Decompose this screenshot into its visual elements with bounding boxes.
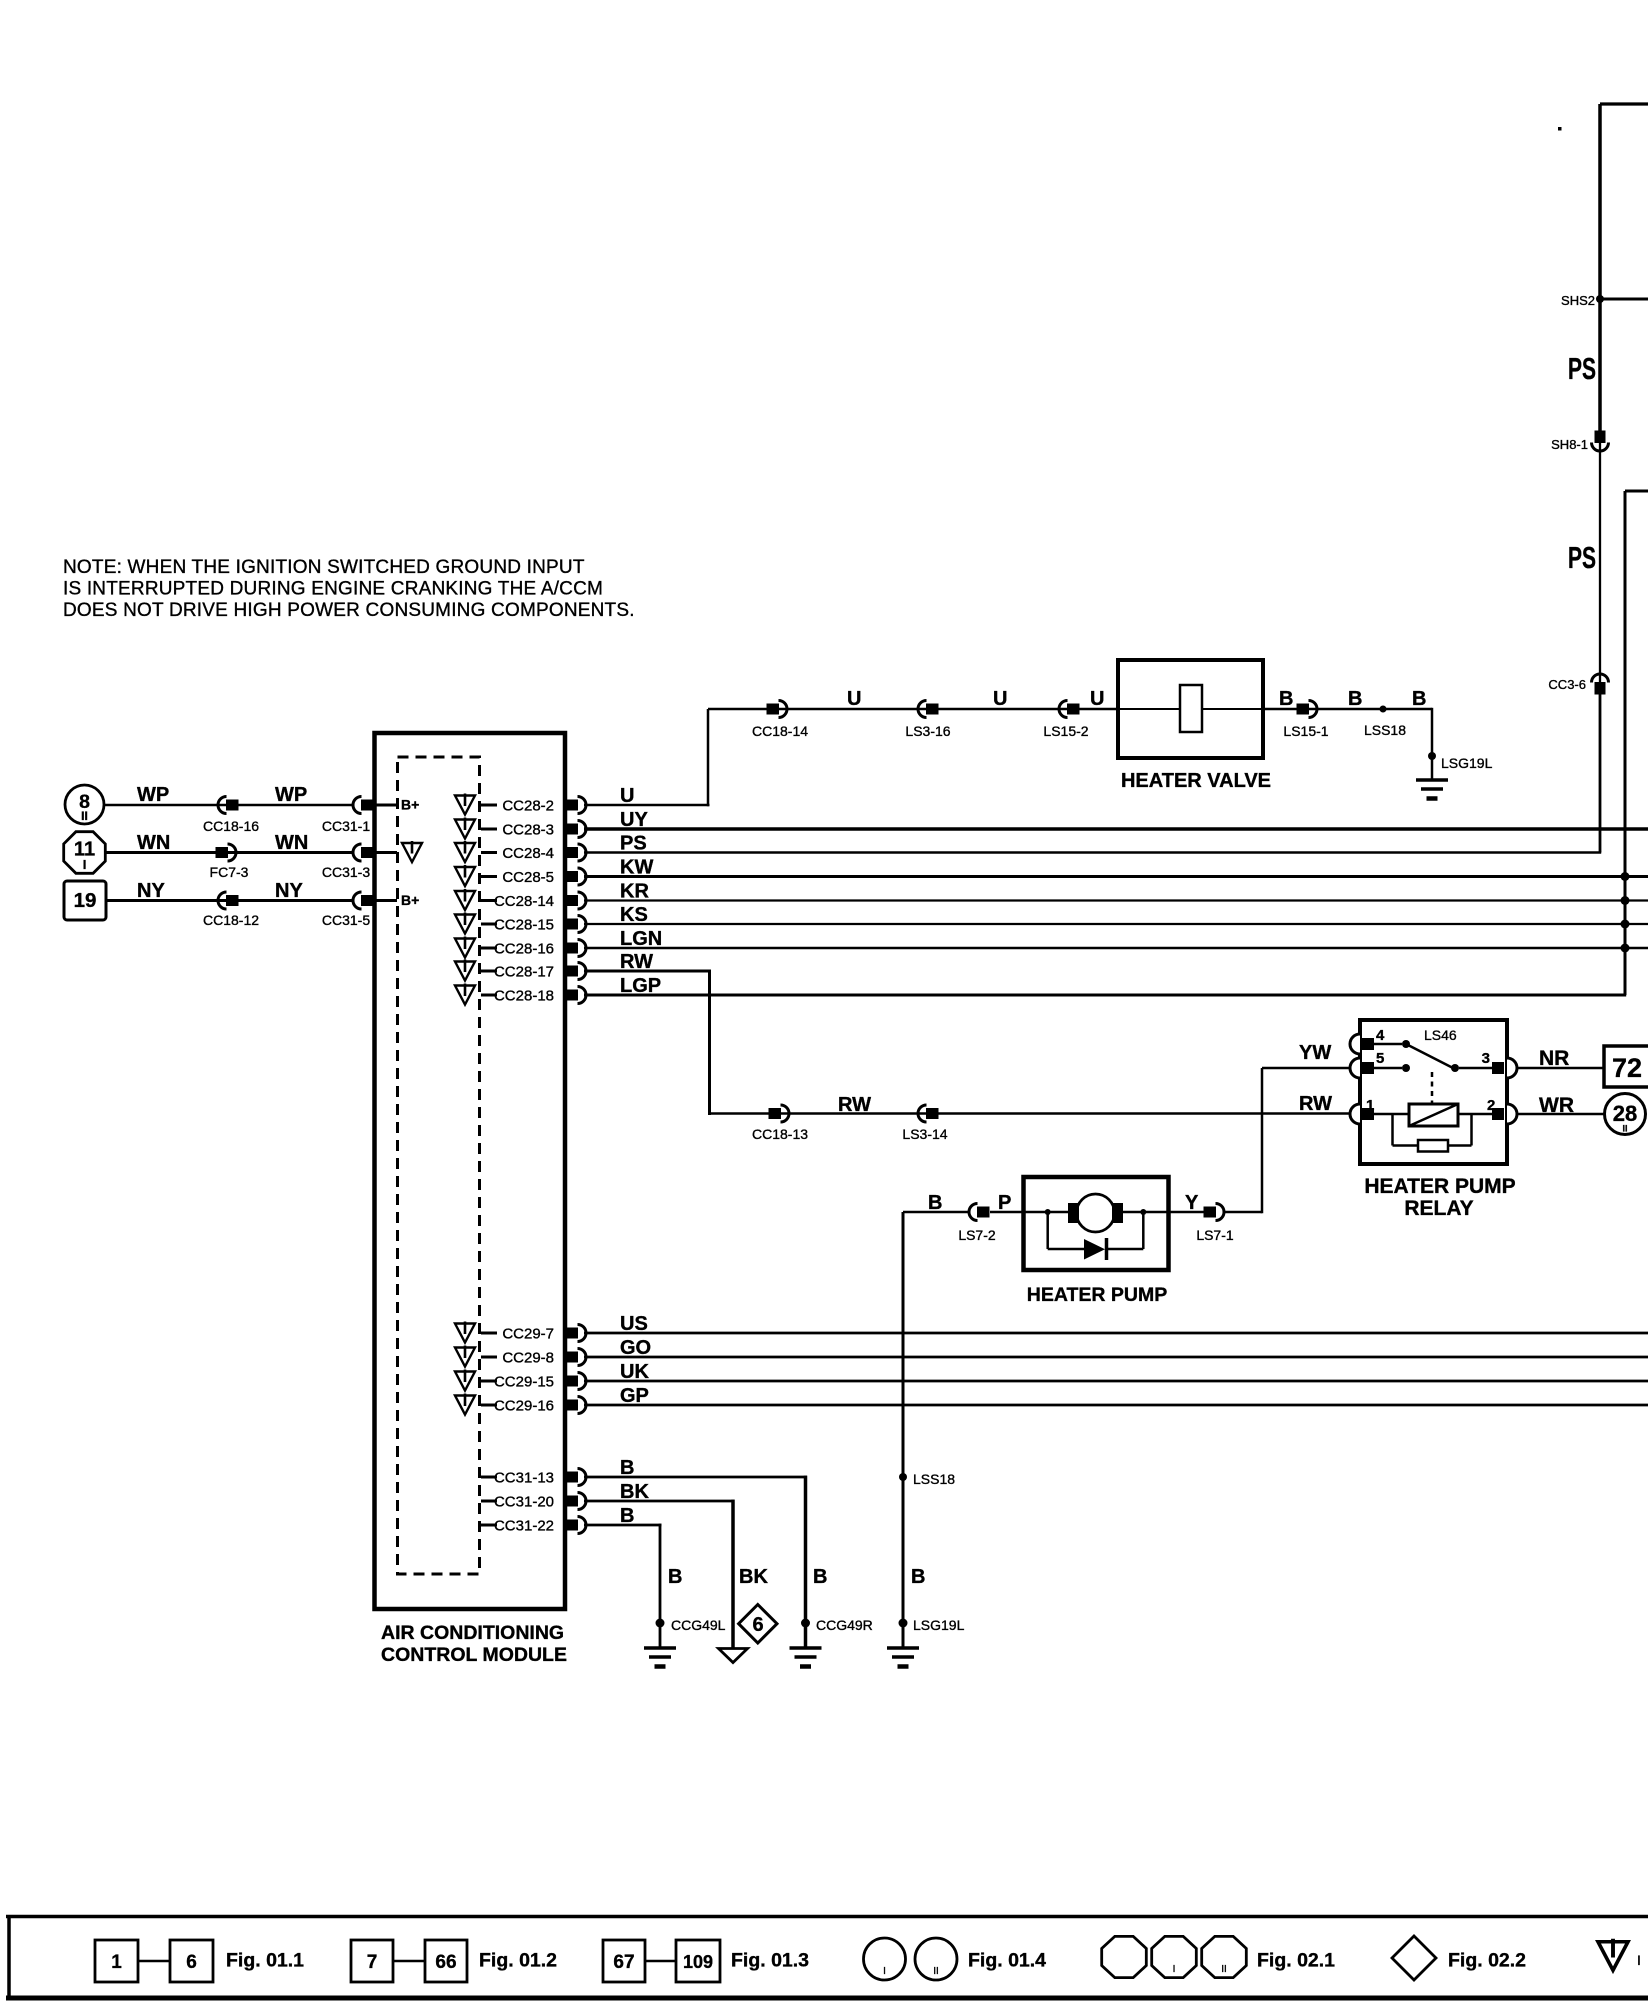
relay pin 4 xyxy=(1362,1027,1385,1050)
wire B from CC31-13 to CCG49R xyxy=(584,1476,807,1623)
svg-text:YW: YW xyxy=(1299,1042,1331,1064)
off-page arrow (BK) xyxy=(719,1649,748,1663)
wire label B (49R riser) xyxy=(813,1566,827,1588)
node label: AIR CONDITIONING CONTROL MODULE xyxy=(381,1622,567,1666)
svg-text:CC31-13: CC31-13 xyxy=(494,1470,554,1487)
wire BK from CC31-20 xyxy=(584,1500,735,1648)
svg-text:7: 7 xyxy=(367,1952,378,1973)
legend item Fig. 02.1 xyxy=(1102,1936,1335,1977)
svg-text:Fig. 02.1: Fig. 02.1 xyxy=(1257,1950,1335,1972)
svg-text:LS3-14: LS3-14 xyxy=(902,1126,947,1142)
wire B from CC31-22 to CCG49L xyxy=(584,1524,662,1623)
wire label US at pin CC29-7 xyxy=(620,1313,648,1335)
connector LS15-2 xyxy=(1043,701,1088,740)
svg-text:PS: PS xyxy=(1568,351,1596,386)
svg-text:LSG19L: LSG19L xyxy=(1441,755,1493,771)
pin CC28-15 xyxy=(455,913,586,934)
relay pin 2 xyxy=(1487,1097,1504,1120)
pin CC28-5 xyxy=(455,865,586,886)
splice LSG19L xyxy=(1428,752,1493,771)
svg-text:LS15-1: LS15-1 xyxy=(1283,723,1328,739)
legend frame xyxy=(6,1917,1648,1999)
svg-text:HEATER VALVE: HEATER VALVE xyxy=(1121,770,1271,792)
svg-text:LS46: LS46 xyxy=(1424,1027,1457,1043)
pin CC31-3 (ignition switched ground) xyxy=(353,841,422,862)
svg-text:I: I xyxy=(83,857,87,872)
node 8-II input connector xyxy=(65,785,104,824)
junction KR riser xyxy=(1621,896,1630,905)
wire KW to page edge xyxy=(584,875,1648,878)
wire label WP (2) xyxy=(275,784,307,806)
wire U from CC28-2 up to heater valve line xyxy=(584,709,710,806)
wire label B at pin CC31-13 xyxy=(620,1457,634,1479)
ground LSG19L xyxy=(887,1623,919,1667)
wire label B (2) xyxy=(1348,688,1362,710)
svg-text:PS: PS xyxy=(620,833,647,855)
splice SHS2 xyxy=(1561,293,1648,308)
pin CC28-4 xyxy=(455,841,586,862)
svg-text:WN: WN xyxy=(275,832,308,854)
svg-text:CC28-15: CC28-15 xyxy=(494,917,554,934)
wire label UK at pin CC29-15 xyxy=(620,1361,649,1383)
wire label PS at pin CC28-4 xyxy=(620,833,647,855)
svg-text:CC3-6: CC3-6 xyxy=(1548,677,1586,692)
svg-text:CC18-16: CC18-16 xyxy=(203,818,259,834)
svg-text:LSS18: LSS18 xyxy=(913,1471,955,1487)
splice CCG49L xyxy=(656,1617,726,1633)
connector LS3-14 xyxy=(902,1105,947,1142)
svg-text:CC31-22: CC31-22 xyxy=(494,1518,554,1535)
svg-text:LS7-1: LS7-1 xyxy=(1196,1227,1234,1243)
svg-text:B: B xyxy=(1348,688,1362,710)
svg-text:LS15-2: LS15-2 xyxy=(1043,723,1088,739)
relay pin 5 xyxy=(1362,1050,1384,1074)
svg-text:CC31-3: CC31-3 xyxy=(322,864,370,880)
wire WR from relay pin 2 xyxy=(1517,1113,1604,1116)
svg-text:B: B xyxy=(911,1566,925,1588)
wire label NR xyxy=(1539,1047,1569,1070)
wire label WN xyxy=(137,832,170,854)
svg-text:LGN: LGN xyxy=(620,928,662,950)
wire KR to page edge xyxy=(584,899,1648,901)
pin CC29-15 xyxy=(455,1370,586,1391)
svg-text:B+: B+ xyxy=(401,797,419,813)
wire label NY (2) xyxy=(275,880,303,902)
wire label KR at pin CC28-14 xyxy=(620,881,649,903)
svg-text:109: 109 xyxy=(683,1952,713,1972)
svg-text:I: I xyxy=(883,1966,886,1977)
diode in heater pump xyxy=(1045,1209,1147,1260)
wire NR from relay pin 3 xyxy=(1517,1067,1604,1070)
pin CC28-16 xyxy=(455,937,586,958)
legend item Fig. 01.1 xyxy=(95,1940,304,1982)
wire label B at pin CC31-22 xyxy=(620,1505,634,1527)
svg-text:CC28-4: CC28-4 xyxy=(502,845,554,862)
svg-text:19: 19 xyxy=(74,889,97,912)
wire label U xyxy=(847,688,861,710)
svg-text:Fig. 01.4: Fig. 01.4 xyxy=(968,1950,1046,1972)
wire LGN to page edge xyxy=(584,947,1648,950)
pin CC29-7 xyxy=(455,1322,586,1343)
svg-text:II: II xyxy=(1622,1124,1627,1134)
wire label YW xyxy=(1299,1042,1331,1064)
svg-text:Y: Y xyxy=(1185,1192,1199,1214)
wire PS riser to top of page xyxy=(1600,104,1648,853)
connector LS7-1 xyxy=(1196,1204,1234,1244)
pin CC31-22 xyxy=(481,1517,586,1535)
legend item Fig. 01.2 xyxy=(351,1940,557,1982)
svg-text:HEATER PUMP: HEATER PUMP xyxy=(1364,1175,1515,1198)
connector CC18-16 xyxy=(203,797,259,835)
pin CC29-8 xyxy=(455,1346,586,1367)
wire UY to page edge xyxy=(584,827,1648,831)
wire label KW at pin CC28-5 xyxy=(620,857,653,879)
svg-text:SHS2: SHS2 xyxy=(1561,293,1595,308)
svg-text:RW: RW xyxy=(838,1094,871,1116)
wire label B (49L riser) xyxy=(668,1566,682,1588)
heater valve HV1 xyxy=(1118,660,1432,758)
connector LS7-2 xyxy=(958,1204,996,1244)
wire WP from node 8 to module xyxy=(104,804,353,807)
svg-text:CC29-8: CC29-8 xyxy=(502,1350,554,1367)
wire NY from node 19 to module xyxy=(106,899,353,902)
svg-text:NY: NY xyxy=(275,880,303,902)
svg-text:KS: KS xyxy=(620,904,648,926)
junction KW riser xyxy=(1621,872,1630,881)
svg-text:CC28-3: CC28-3 xyxy=(502,822,554,839)
wire YW from relay pin 5 xyxy=(1262,1068,1350,1213)
connector SH8-1 xyxy=(1551,431,1608,453)
wire label B (riser) xyxy=(911,1566,925,1588)
svg-text:CC28-2: CC28-2 xyxy=(502,798,554,815)
svg-text:Fig. 01.1: Fig. 01.1 xyxy=(226,1950,304,1972)
component A/CCM: air conditioning control module box xyxy=(375,733,566,1609)
svg-text:U: U xyxy=(1090,688,1104,710)
pin CC28-18 xyxy=(455,984,586,1005)
svg-text:B: B xyxy=(668,1566,682,1588)
connector label CC31-5 xyxy=(322,912,370,928)
svg-text:CCG49L: CCG49L xyxy=(671,1617,726,1633)
svg-text:CONTROL MODULE: CONTROL MODULE xyxy=(381,1644,567,1666)
pin CC28-14 xyxy=(455,889,586,910)
svg-text:SH8-1: SH8-1 xyxy=(1551,437,1588,452)
svg-text:LS3-16: LS3-16 xyxy=(905,723,950,739)
svg-text:LS7-2: LS7-2 xyxy=(958,1227,996,1243)
wire P into pump xyxy=(990,1211,1071,1214)
svg-text:CC28-16: CC28-16 xyxy=(494,941,554,958)
pin CC31-5 (B+) xyxy=(353,892,419,909)
component label HEATER PUMP RELAY xyxy=(1364,1175,1515,1220)
wire label RW at pin CC28-17 xyxy=(620,951,653,973)
svg-text:II: II xyxy=(81,809,88,823)
svg-text:LSS18: LSS18 xyxy=(1364,722,1406,738)
connector CC18-14 xyxy=(752,701,808,740)
svg-text:I: I xyxy=(1173,1964,1176,1975)
svg-text:B: B xyxy=(813,1566,827,1588)
legend item Fig. 01.4 xyxy=(864,1938,1047,1980)
svg-text:3: 3 xyxy=(1482,1050,1490,1067)
svg-text:FC7-3: FC7-3 xyxy=(210,864,249,880)
svg-text:DOES NOT DRIVE HIGH POWER CONS: DOES NOT DRIVE HIGH POWER CONSUMING COMP… xyxy=(63,600,635,621)
svg-text:P: P xyxy=(998,1192,1011,1214)
wire label RW xyxy=(838,1094,871,1116)
relay pin 1 xyxy=(1362,1097,1374,1120)
svg-text:B: B xyxy=(928,1192,942,1214)
wire label UY at pin CC28-3 xyxy=(620,809,648,831)
relay coil xyxy=(1374,1104,1492,1126)
relay: heater pump relay box xyxy=(1350,1020,1517,1164)
svg-text:NOTE: WHEN THE IGNITION SWITCH: NOTE: WHEN THE IGNITION SWITCHED GROUND … xyxy=(63,557,585,578)
svg-text:NY: NY xyxy=(137,880,165,902)
wire LGP to right riser xyxy=(584,994,1626,997)
wire label PS (riser lower) xyxy=(1568,540,1596,575)
svg-text:2: 2 xyxy=(1487,1097,1495,1114)
connector CC18-12 xyxy=(203,892,259,928)
svg-text:CC18-12: CC18-12 xyxy=(203,912,259,928)
svg-text:6: 6 xyxy=(752,1614,763,1636)
node 28-II output connector xyxy=(1605,1094,1646,1135)
component label HEATER VALVE xyxy=(1121,770,1271,792)
svg-text:CC28-18: CC28-18 xyxy=(494,988,554,1005)
node 19 input connector xyxy=(64,881,106,920)
pin CC31-13 xyxy=(481,1469,586,1487)
svg-text:PS: PS xyxy=(1568,540,1596,575)
svg-text:CC18-13: CC18-13 xyxy=(752,1126,808,1142)
legend item Fig. 01.3 xyxy=(603,1940,809,1982)
ground LSG19L (heater valve) xyxy=(1416,756,1448,799)
svg-text:CC28-5: CC28-5 xyxy=(502,869,554,886)
wire Y to YW riser xyxy=(1225,1211,1262,1214)
svg-text:Fig. 01.3: Fig. 01.3 xyxy=(731,1950,809,1972)
pin CC29-16 xyxy=(455,1394,586,1415)
svg-text:II: II xyxy=(933,1966,939,1977)
relay label LS46 xyxy=(1424,1027,1457,1043)
wire label WN (2) xyxy=(275,832,308,854)
svg-text:CC29-7: CC29-7 xyxy=(502,1326,554,1343)
svg-text:NR: NR xyxy=(1539,1047,1569,1070)
wire label Y xyxy=(1185,1192,1199,1214)
splice LSS18 on heater valve B wire xyxy=(1364,706,1406,739)
wire label NY xyxy=(137,880,165,902)
svg-text:CC28-14: CC28-14 xyxy=(494,893,554,910)
connector LS15-1 xyxy=(1283,701,1328,740)
relay actuator dashed link xyxy=(1431,1072,1434,1104)
connector label CC31-3 xyxy=(322,864,370,880)
svg-text:CC31-20: CC31-20 xyxy=(494,1494,554,1511)
svg-text:28: 28 xyxy=(1613,1101,1637,1126)
svg-text:KR: KR xyxy=(620,881,649,903)
pin CC28-2 xyxy=(455,794,586,815)
svg-text:WP: WP xyxy=(137,784,169,806)
wire label U at pin CC28-2 xyxy=(620,785,634,807)
svg-text:1: 1 xyxy=(111,1952,122,1973)
svg-text:Fig. 02.2: Fig. 02.2 xyxy=(1448,1950,1526,1972)
svg-text:4: 4 xyxy=(1376,1027,1385,1044)
svg-text:67: 67 xyxy=(613,1952,634,1973)
svg-text:WN: WN xyxy=(137,832,170,854)
wire label U (3) xyxy=(1090,688,1104,710)
note text xyxy=(63,557,635,621)
svg-text:U: U xyxy=(620,785,634,807)
wire WN from node 11 to module xyxy=(106,851,353,854)
svg-text:Fig. 01.2: Fig. 01.2 xyxy=(479,1950,557,1972)
junction KS riser xyxy=(1621,920,1630,929)
svg-text:BK: BK xyxy=(739,1566,768,1588)
node 11-I input connector xyxy=(64,832,106,874)
connector LS3-16 xyxy=(905,701,950,740)
svg-text:RELAY: RELAY xyxy=(1404,1197,1473,1220)
wire label GO at pin CC29-8 xyxy=(620,1337,651,1359)
svg-text:CCG49R: CCG49R xyxy=(816,1617,873,1633)
svg-text:LSG19L: LSG19L xyxy=(913,1617,965,1633)
svg-text:AIR CONDITIONING: AIR CONDITIONING xyxy=(381,1622,564,1644)
wire label RW (2) xyxy=(1299,1093,1332,1115)
wire label U (2) xyxy=(993,688,1007,710)
svg-text:B: B xyxy=(1279,688,1293,710)
node 72 output connector xyxy=(1604,1046,1648,1087)
svg-text:I: I xyxy=(1637,1952,1641,1968)
connector CC3-6 xyxy=(1548,674,1608,695)
ground CCG49L xyxy=(644,1623,676,1667)
svg-text:B: B xyxy=(1412,688,1426,710)
pin CC28-17 xyxy=(455,960,586,981)
svg-text:6: 6 xyxy=(186,1952,197,1973)
ground CCG49R xyxy=(790,1623,822,1667)
pin CC31-20 xyxy=(481,1493,586,1511)
svg-text:CC29-16: CC29-16 xyxy=(494,1398,554,1415)
wire label PS (riser upper) xyxy=(1568,351,1596,386)
pin CC28-3 xyxy=(455,818,586,839)
svg-text:U: U xyxy=(993,688,1007,710)
wire B down to ground LSG19L xyxy=(1431,708,1434,756)
svg-text:IS INTERRUPTED DURING ENGINE C: IS INTERRUPTED DURING ENGINE CRANKING TH… xyxy=(63,579,603,600)
splice LSG19L (riser) xyxy=(899,1617,965,1633)
connector CC18-13 xyxy=(752,1105,808,1142)
legend item Fig. 02.2 xyxy=(1392,1936,1526,1980)
svg-text:5: 5 xyxy=(1376,1050,1384,1067)
relay switch blade xyxy=(1374,1040,1492,1072)
wire label B (pump) xyxy=(928,1192,942,1214)
wire LGP riser to top page edge xyxy=(1625,491,1648,995)
relay pin 3 xyxy=(1482,1050,1504,1074)
legend item switched-ground symbol xyxy=(1598,1939,1641,1971)
wire label LGP at pin CC28-18 xyxy=(620,975,661,997)
wire B from heater pump to riser xyxy=(903,1211,968,1214)
svg-text:WR: WR xyxy=(1539,1094,1574,1117)
svg-text:II: II xyxy=(1221,1964,1227,1975)
svg-text:1: 1 xyxy=(1366,1097,1374,1114)
wire label BK (riser) xyxy=(739,1566,768,1588)
svg-text:66: 66 xyxy=(435,1952,456,1973)
node 6 diamond reference xyxy=(739,1605,777,1644)
svg-text:HEATER PUMP: HEATER PUMP xyxy=(1027,1284,1167,1306)
component label HEATER PUMP xyxy=(1027,1284,1167,1306)
wire UK to page edge xyxy=(584,1380,1648,1383)
wire PS to right riser xyxy=(584,851,1601,854)
wire label GP at pin CC29-16 xyxy=(620,1385,649,1407)
wire label LGN at pin CC28-16 xyxy=(620,928,662,950)
wire U horizontal to heater valve xyxy=(708,708,1118,711)
wire US to page edge xyxy=(584,1332,1648,1335)
wire label WP xyxy=(137,784,169,806)
wire B riser to ground LSG19L xyxy=(902,1212,905,1623)
svg-text:CC18-14: CC18-14 xyxy=(752,723,808,739)
svg-text:CC28-17: CC28-17 xyxy=(494,964,554,981)
svg-text:CC29-15: CC29-15 xyxy=(494,1374,554,1391)
connector label CC31-1 xyxy=(322,818,370,834)
pin CC31-1 (B+) xyxy=(353,797,419,814)
wire Y out of pump xyxy=(1121,1211,1204,1214)
stray mark xyxy=(1558,127,1562,131)
svg-text:CC31-5: CC31-5 xyxy=(322,912,370,928)
svg-text:WP: WP xyxy=(275,784,307,806)
wire GO to page edge xyxy=(584,1356,1648,1359)
motor: heater pump box xyxy=(1024,1177,1169,1270)
wire label B (3) xyxy=(1412,688,1426,710)
wire KS to page edge xyxy=(584,923,1648,925)
wire label B xyxy=(1279,688,1293,710)
splice CCG49R xyxy=(801,1617,873,1633)
wire label P xyxy=(998,1192,1011,1214)
wire label BK at pin CC31-20 xyxy=(620,1481,649,1503)
svg-text:CC31-1: CC31-1 xyxy=(322,818,370,834)
wire RW from CC28-17 down xyxy=(584,970,1360,1116)
svg-text:72: 72 xyxy=(1612,1053,1642,1083)
junction LGN riser xyxy=(1621,944,1630,953)
relay resistor xyxy=(1393,1114,1472,1152)
connector FC7-3 xyxy=(210,844,249,880)
wire label KS at pin CC28-15 xyxy=(620,904,648,926)
wire GP to page edge xyxy=(584,1404,1648,1407)
svg-text:B+: B+ xyxy=(401,892,419,908)
splice LSS18 (riser) xyxy=(899,1471,955,1487)
svg-text:RW: RW xyxy=(1299,1093,1332,1115)
motor symbol xyxy=(1068,1194,1123,1232)
wire label WR xyxy=(1539,1094,1574,1117)
svg-text:U: U xyxy=(847,688,861,710)
